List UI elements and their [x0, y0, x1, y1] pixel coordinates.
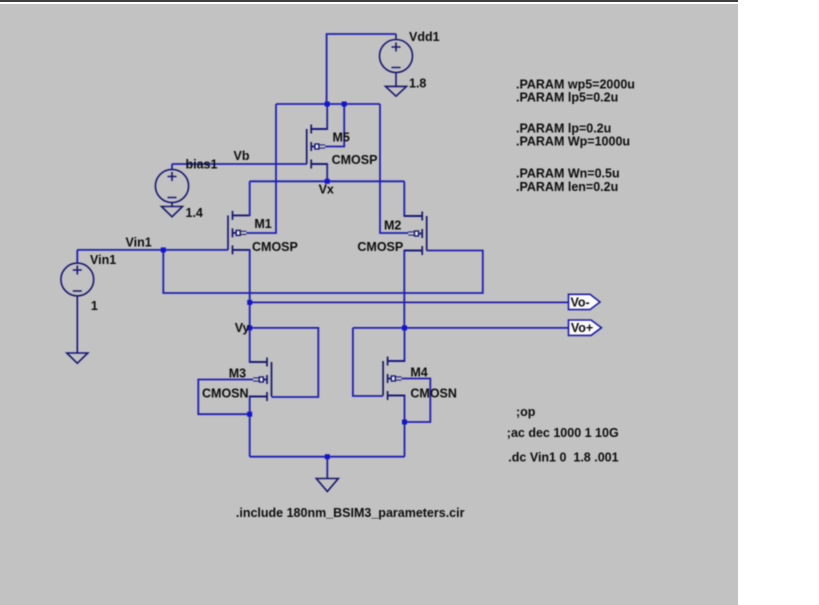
- svg-text:Vx: Vx: [319, 182, 334, 196]
- svg-text:Vy: Vy: [235, 321, 250, 335]
- svg-text:Vdd1: Vdd1: [409, 30, 440, 44]
- svg-text:.include 180nm_BSIM3_parameter: .include 180nm_BSIM3_parameters.cir: [236, 506, 465, 520]
- svg-text:Vin1: Vin1: [90, 253, 116, 267]
- svg-text:CMOSP: CMOSP: [332, 153, 378, 167]
- svg-text:Vo+: Vo+: [571, 321, 593, 335]
- svg-text:1.8: 1.8: [409, 77, 426, 91]
- svg-text:1.4: 1.4: [186, 206, 203, 220]
- svg-text:CMOSN: CMOSN: [202, 387, 249, 401]
- svg-text:M5: M5: [333, 131, 350, 145]
- svg-text:;ac dec 1000 1 10G: ;ac dec 1000 1 10G: [507, 426, 619, 440]
- svg-text:.PARAM Wp=1000u: .PARAM Wp=1000u: [516, 135, 630, 149]
- svg-text:M3: M3: [229, 366, 246, 380]
- svg-text:.PARAM lp5=0.2u: .PARAM lp5=0.2u: [516, 91, 618, 105]
- svg-text:M1: M1: [254, 217, 271, 231]
- svg-text:.PARAM len=0.2u: .PARAM len=0.2u: [516, 180, 618, 194]
- svg-text:1: 1: [91, 299, 98, 313]
- svg-text:CMOSP: CMOSP: [357, 240, 403, 254]
- svg-text:.dc Vin1 0 1.8 .001: .dc Vin1 0 1.8 .001: [508, 451, 618, 465]
- svg-text:M4: M4: [410, 365, 427, 379]
- svg-text:.PARAM Wn=0.5u: .PARAM Wn=0.5u: [516, 167, 620, 181]
- svg-text:M2: M2: [384, 219, 401, 233]
- svg-text:Vo-: Vo-: [571, 296, 590, 310]
- svg-text:;op: ;op: [516, 405, 536, 419]
- svg-text:CMOSP: CMOSP: [252, 240, 298, 254]
- svg-text:CMOSN: CMOSN: [410, 387, 457, 401]
- svg-text:.PARAM lp=0.2u: .PARAM lp=0.2u: [516, 121, 611, 135]
- svg-text:Vin1: Vin1: [126, 236, 152, 250]
- svg-text:.PARAM wp5=2000u: .PARAM wp5=2000u: [516, 77, 635, 91]
- svg-text:bias1: bias1: [186, 158, 218, 172]
- svg-text:Vb: Vb: [234, 149, 250, 163]
